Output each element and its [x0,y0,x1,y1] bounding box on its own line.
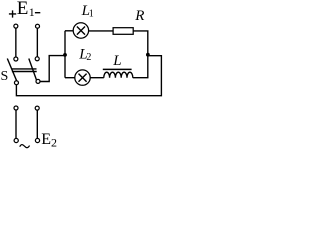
switch top-left contact [14,57,18,61]
svg-text:1: 1 [29,5,35,19]
svg-text:E: E [17,0,29,19]
wire switch right pole to left junction [40,56,64,82]
wire right feed to bottom rail and around to switch bottom-left [16,56,161,96]
wire to lamp L1 [65,30,73,32]
wire L2 to inductor [90,77,104,79]
battery E1 label [17,0,35,19]
E2 top-right terminal [35,106,39,110]
svg-text:1: 1 [89,9,94,20]
wire L1 to R [89,30,114,32]
wire to lamp L2 [65,77,75,79]
lamp L2 label [78,46,91,63]
node left junction dot [63,53,67,57]
lamp L1 label [81,3,94,20]
inductor L coil [104,72,133,78]
inductor L label [112,53,121,69]
lamp L1 [73,23,88,38]
svg-text:R: R [134,8,144,24]
switch top-right contact [35,57,39,61]
E2 top-left terminal [14,106,18,110]
AC source E2 right lead [36,110,38,138]
switch S label [1,69,9,84]
resistor R label [134,8,144,24]
switch handle bar lower line [12,71,37,73]
plus sign of E1 [9,10,16,17]
switch handle bar upper line [12,68,37,70]
terminal post E1 right circle [36,24,40,28]
E2 bottom-left terminal [14,138,18,142]
resistor R [113,28,133,35]
switch right blade [29,59,37,81]
AC tilde symbol [20,145,30,148]
minus sign of E1 [35,12,40,14]
svg-text:E: E [41,131,51,148]
wire E1 right lead [36,28,38,56]
switch bottom-right contact [36,79,40,83]
wire left branch vertical [64,31,66,78]
inductor L iron core line [103,68,132,70]
E2 label [41,131,57,150]
wire R to right vertical down to inductor row [133,31,148,78]
switch left blade [7,59,16,81]
node right junction dot [146,53,150,57]
svg-text:2: 2 [86,52,91,63]
E2 bottom-right terminal [35,138,39,142]
AC source E2 left lead [15,110,17,138]
wire E1 left lead [15,28,17,57]
terminal post E1 left circle [14,24,18,28]
svg-text:L: L [112,53,121,69]
svg-text:2: 2 [51,136,57,150]
lamp L2 [75,70,90,85]
switch bottom-left contact [14,81,18,85]
svg-text:S: S [1,69,9,84]
